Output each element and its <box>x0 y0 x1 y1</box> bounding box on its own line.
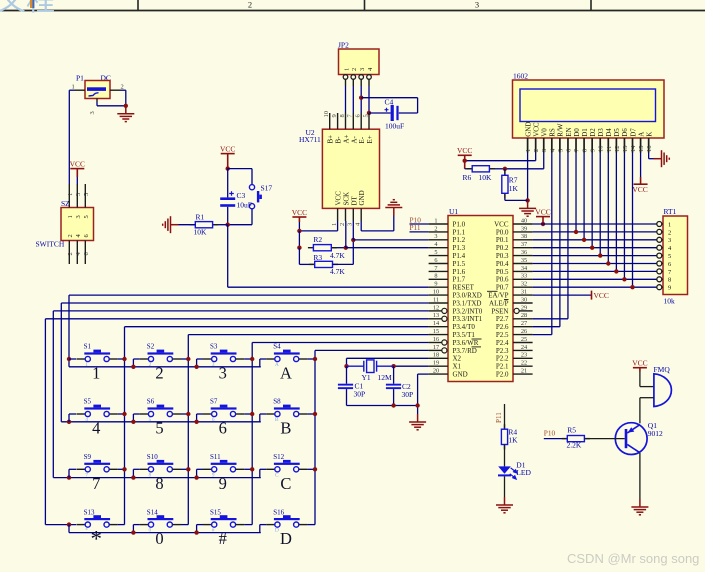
LCD pin 10 (D3) <box>599 138 601 153</box>
LCD pin 15 (A) <box>640 138 642 153</box>
wire U1 X2 to crystal <box>347 357 429 359</box>
junction column 1 row 3 <box>122 467 126 471</box>
switch S15 (key #) <box>211 518 237 520</box>
svg-text:*: * <box>91 527 103 552</box>
U2 bottom pins <box>337 208 339 221</box>
U1 pin 12 (P3.2/INT0) <box>429 310 442 312</box>
svg-text:8: 8 <box>149 472 152 478</box>
svg-text:3: 3 <box>668 237 671 244</box>
SZ pin 5 <box>84 184 86 208</box>
wire S3 left drop <box>196 359 198 367</box>
junction column 3 row 2 <box>250 412 254 416</box>
wire P1.2 to ground junction <box>121 89 126 91</box>
IC U2 HX711 body <box>322 129 379 208</box>
wire P0.1 row to RT1 pin 3 <box>533 239 657 241</box>
wire buzzer bottom terminal to Q1 emitter <box>640 397 654 399</box>
svg-text:1K: 1K <box>508 435 518 444</box>
junction D5 / P0.5 <box>614 269 618 273</box>
RT1 pin 2 <box>657 229 662 234</box>
svg-text:P1.4: P1.4 <box>453 252 466 260</box>
svg-text:11: 11 <box>606 146 613 152</box>
svg-text:P3.2/INT0: P3.2/INT0 <box>453 307 483 315</box>
junction crystal right <box>391 364 395 368</box>
svg-text:7: 7 <box>85 472 88 478</box>
resistor R4 (1K) <box>504 424 506 429</box>
wire VCC rail down to R2 <box>298 231 300 248</box>
LCD pin 7 (D0) <box>575 138 577 153</box>
switch S2 (key 2) <box>148 352 174 354</box>
svg-text:37: 37 <box>521 241 527 248</box>
svg-text:P11: P11 <box>495 412 503 423</box>
U1 pin 26 (P2.5) <box>513 334 533 336</box>
RT1 pin 7 <box>657 269 662 274</box>
U1 pin 33 (P0.6) <box>513 278 533 280</box>
svg-text:8: 8 <box>668 277 671 284</box>
U1 pin 14 (P3.4/T0) <box>429 326 448 328</box>
svg-text:S17: S17 <box>261 184 273 193</box>
connector P1 (DC jack) <box>85 81 110 99</box>
svg-text:P3.4/T0: P3.4/T0 <box>453 323 476 331</box>
connector JP2 <box>339 49 380 75</box>
resistor R6 (10K) <box>465 168 473 170</box>
wire S10 left drop <box>132 469 134 477</box>
svg-text:E+: E+ <box>366 135 374 143</box>
svg-text:0: 0 <box>149 528 152 534</box>
keypad row 4 row line <box>45 524 76 526</box>
U1 pin 4 (P1.3) <box>429 247 448 249</box>
wire row 3 first switch left connector <box>69 468 76 470</box>
wire JP2.4 to U2 E+ <box>368 86 370 113</box>
svg-text:9: 9 <box>331 114 338 117</box>
LCD pin 16 (K) <box>648 138 650 153</box>
svg-text:S4: S4 <box>273 343 281 351</box>
capacitor C2 (30P) <box>393 366 395 384</box>
svg-text:2: 2 <box>434 225 437 232</box>
P1 pin 3 <box>96 99 98 103</box>
U1 pin 17 (P3.7/RD) <box>429 349 442 351</box>
svg-text:3: 3 <box>212 362 215 368</box>
svg-text:5: 5 <box>155 419 163 438</box>
svg-text:S13: S13 <box>84 508 95 516</box>
junction column 2 row 1 <box>186 357 190 361</box>
svg-text:GND: GND <box>358 190 366 205</box>
svg-text:P3.5/T1: P3.5/T1 <box>453 331 476 339</box>
svg-text:3: 3 <box>359 68 366 71</box>
wire JP2.2 to U2 A- <box>352 86 354 113</box>
svg-text:LED: LED <box>516 468 531 477</box>
svg-text:P1.1: P1.1 <box>453 228 466 236</box>
svg-text:2: 2 <box>149 362 152 368</box>
svg-text:P1.2: P1.2 <box>453 236 466 244</box>
U1 pin 21 (P2.0) <box>513 373 533 375</box>
ground below P1 <box>117 106 134 122</box>
svg-text:21: 21 <box>521 368 527 375</box>
svg-text:1: 1 <box>92 364 100 383</box>
power port VCC at U1 pin40 <box>536 217 550 224</box>
svg-text:C: C <box>275 472 279 478</box>
svg-text:A: A <box>280 364 292 383</box>
wire P0.3 row to RT1 pin 5 <box>533 255 657 257</box>
svg-text:4.7K: 4.7K <box>330 251 345 260</box>
switch S6 (key 5) <box>148 407 174 409</box>
wire S3 right connector to column <box>244 358 252 360</box>
svg-text:R3: R3 <box>313 253 322 262</box>
wire U1 P2.5 pin26 up to LCD RS <box>533 334 552 336</box>
svg-text:P3.0/RXD: P3.0/RXD <box>453 292 482 300</box>
svg-text:VCC: VCC <box>494 220 509 228</box>
wire P0.0 row to RT1 pin 2 <box>533 231 657 233</box>
svg-text:X1: X1 <box>453 363 462 371</box>
switch S1 (key 1) <box>84 352 110 354</box>
svg-text:C: C <box>280 474 291 493</box>
svg-text:5: 5 <box>83 215 90 218</box>
svg-text:2: 2 <box>533 149 540 152</box>
svg-text:GND: GND <box>524 122 532 137</box>
svg-text:30P: 30P <box>402 390 414 399</box>
svg-text:39: 39 <box>521 225 527 232</box>
U1 pin 22 (P2.1) <box>513 365 533 367</box>
svg-text:P3.7/RD: P3.7/RD <box>453 347 477 355</box>
P1 pin 2 <box>110 89 121 91</box>
svg-text:9012: 9012 <box>648 429 663 438</box>
wire LCD K pin16 to ground right <box>648 153 650 159</box>
svg-text:4: 4 <box>92 419 100 438</box>
junction VCC / C3 / S17 <box>226 166 230 170</box>
svg-text:P0.0: P0.0 <box>496 228 509 236</box>
wire net P11 down to R4 <box>504 404 506 429</box>
svg-text:2: 2 <box>668 229 671 236</box>
svg-text:5: 5 <box>362 114 369 117</box>
LCD pin 11 (D4) <box>607 138 609 153</box>
svg-text:D7: D7 <box>629 128 637 137</box>
wire LCD V0 pin3 to R6/R7 node <box>543 153 545 169</box>
svg-text:P0.6: P0.6 <box>496 276 509 284</box>
svg-text:10: 10 <box>598 146 605 153</box>
LCD 1602 module body <box>513 80 665 138</box>
capacitor C3 (electrolytic 10uF) <box>227 169 229 198</box>
svg-text:10K: 10K <box>479 173 493 182</box>
wire U1 EA/VP pin31 to VCC port <box>533 294 592 296</box>
LCD pin 5 (R/W) <box>559 138 561 153</box>
wire keypad column 1 bus (P3.4) <box>125 326 429 328</box>
wire S4 right connector to column <box>307 358 315 360</box>
wire row 2 first switch left connector <box>69 413 76 415</box>
ground left of R1 (rotated) <box>163 216 179 233</box>
svg-text:28: 28 <box>521 312 527 319</box>
U1 pin 37 (P0.2) <box>513 247 533 249</box>
svg-text:1: 1 <box>525 149 532 152</box>
switch S13 (key *) <box>84 518 110 520</box>
U1 pin 35 (P0.4) <box>513 263 533 265</box>
svg-text:16: 16 <box>433 336 439 343</box>
svg-text:VCC: VCC <box>70 159 85 168</box>
U1 pin 31 (EA/VP) <box>513 294 533 296</box>
wire P1.1 down the left side to SZ <box>69 89 75 91</box>
svg-text:8: 8 <box>434 273 437 280</box>
svg-text:15: 15 <box>433 328 439 335</box>
svg-text:1: 1 <box>434 217 437 224</box>
svg-text:26: 26 <box>521 328 527 335</box>
wire S16 right connector to column <box>307 524 315 526</box>
svg-text:36: 36 <box>521 249 527 256</box>
svg-text:20: 20 <box>433 368 439 375</box>
svg-text:EA/VP: EA/VP <box>488 292 508 300</box>
svg-text:A: A <box>637 132 645 137</box>
junction crystal left <box>344 364 348 368</box>
svg-text:PSEN: PSEN <box>491 307 508 315</box>
wire row 1 first switch left connector <box>69 358 76 360</box>
junction LCD GND / R7 / ground <box>525 198 529 202</box>
svg-text:12M: 12M <box>378 373 393 382</box>
LCD 1602 screen area <box>520 89 656 122</box>
U1 pin 1 (P1.0) <box>429 223 448 225</box>
transistor Q1 (PNP 9012) <box>615 423 647 455</box>
svg-text:S2: S2 <box>147 343 155 351</box>
svg-text:D1: D1 <box>581 128 589 137</box>
svg-text:V0: V0 <box>541 128 549 137</box>
wire S14 left drop <box>132 525 134 533</box>
wire P1.3 to ground junction <box>96 102 98 106</box>
svg-text:12: 12 <box>433 304 439 311</box>
wire reset node to U1 RESET pin 9 <box>227 225 229 288</box>
svg-text:9: 9 <box>590 149 597 152</box>
svg-text:P2.5: P2.5 <box>496 331 509 339</box>
wire JP2.1 to U2 A+ <box>345 86 347 113</box>
resistor R3 (4.7K pull-up) <box>309 263 315 265</box>
ground below crystal <box>409 414 426 430</box>
svg-text:RS: RS <box>549 128 557 137</box>
junction keypad row 1 left <box>67 357 71 361</box>
resistor network RT1 body <box>663 216 688 295</box>
wire stub net P10 <box>410 223 429 225</box>
wire VCC node to S17 top <box>228 168 252 170</box>
svg-text:R/W: R/W <box>557 123 565 137</box>
wire Q1 collector to ground <box>639 453 641 499</box>
wire R3 to DT line <box>333 263 354 265</box>
U1 pin 34 (P0.5) <box>513 270 533 272</box>
IC U1 MCU body <box>448 216 513 382</box>
svg-text:RT1: RT1 <box>664 207 677 216</box>
RT1 pin 9 <box>657 285 662 290</box>
sheet border ruler line <box>0 10 705 12</box>
wire P0.6 row to RT1 pin 8 <box>533 278 657 280</box>
wire LCD D7 drop <box>632 153 634 288</box>
wire S12 left drop <box>259 469 261 477</box>
junction E+ / C4 <box>367 111 371 115</box>
svg-text:R5: R5 <box>567 425 576 434</box>
U1 pin 27 (P2.6) <box>513 326 533 328</box>
wire LCD VCC pin2 to VCC rail <box>535 153 537 161</box>
U2 top pins <box>329 113 331 129</box>
svg-text:#: # <box>219 529 227 548</box>
svg-text:P1.6: P1.6 <box>453 268 466 276</box>
svg-text:1: 1 <box>668 221 671 228</box>
svg-text:VCC: VCC <box>292 208 307 217</box>
wire keypad row 3 bus (P3.2) <box>53 310 428 312</box>
svg-text:U1: U1 <box>449 207 458 216</box>
wire P0.7 row to RT1 pin 9 <box>533 286 657 288</box>
switch S10 (key 8) <box>148 463 174 465</box>
U1 pin 7 (P1.6) <box>429 270 448 272</box>
svg-text:25: 25 <box>521 336 527 343</box>
U1 pin 13 (P3.3/INT1) <box>429 318 442 320</box>
svg-text:17: 17 <box>433 344 439 351</box>
wire S6 right connector to column <box>181 413 188 415</box>
U1 pin 39 (P0.0) <box>513 231 533 233</box>
LCD pin 6 (EN) <box>567 138 569 153</box>
svg-text:S11: S11 <box>210 453 221 461</box>
svg-text:P1: P1 <box>76 74 84 83</box>
svg-text:P2.0: P2.0 <box>496 371 509 379</box>
svg-text:C4: C4 <box>385 97 394 106</box>
junction C2 / ground rail <box>391 403 395 407</box>
switch S9 (key 7) <box>84 463 110 465</box>
svg-text:P2.4: P2.4 <box>496 339 509 347</box>
wire S17 bottom to reset node <box>251 209 253 225</box>
svg-text:S1: S1 <box>84 343 92 351</box>
svg-text:JP2: JP2 <box>338 41 349 50</box>
wire LCD D2 drop <box>591 153 593 248</box>
svg-text:S14: S14 <box>147 508 158 516</box>
svg-text:D0: D0 <box>573 128 581 137</box>
keypad row 3 row line <box>53 477 260 479</box>
svg-text:10: 10 <box>433 289 439 296</box>
junction SCK / R2 <box>344 246 348 250</box>
svg-text:19: 19 <box>433 360 439 367</box>
svg-text:9: 9 <box>212 472 215 478</box>
svg-text:B: B <box>275 417 279 423</box>
svg-text:P11: P11 <box>410 223 421 232</box>
svg-text:9: 9 <box>219 474 227 493</box>
svg-text:P0.3: P0.3 <box>496 252 509 260</box>
wire U1 P2.7 pin28 up to LCD EN <box>533 318 568 320</box>
wire S9 right connector to column <box>118 468 125 470</box>
wire JP2.3 to U2 E- <box>360 86 362 113</box>
svg-text:27: 27 <box>521 320 527 327</box>
U1 pin 23 (P2.2) <box>513 357 533 359</box>
junction D1 / P0.1 <box>582 238 586 242</box>
svg-text:P2.2: P2.2 <box>496 355 509 363</box>
ground above U2 GND route (inverted) <box>385 200 402 216</box>
wire U2 GND to ground <box>360 221 362 231</box>
svg-text:VCC: VCC <box>335 191 343 206</box>
wire VCC to SZ pin 3 <box>76 177 78 185</box>
wire U2 SCK to U1 P1.3 <box>345 221 347 248</box>
svg-text:VCC: VCC <box>594 291 609 300</box>
RT1 pin 4 <box>657 245 662 250</box>
svg-text:*: * <box>85 528 88 534</box>
svg-text:P3.3/INT1: P3.3/INT1 <box>453 315 483 323</box>
ruler tick x=591 <box>590 0 592 11</box>
U1 pin 32 (P0.7) <box>513 286 533 288</box>
ruler tick x=138 <box>137 0 139 11</box>
svg-text:S8: S8 <box>273 398 281 406</box>
svg-text:S9: S9 <box>84 453 92 461</box>
junction D6 / P0.6 <box>622 277 626 281</box>
svg-text:SWITCH: SWITCH <box>36 240 65 249</box>
svg-text:A: A <box>275 362 279 368</box>
svg-text:33: 33 <box>521 273 527 280</box>
svg-text:6: 6 <box>219 419 227 438</box>
svg-text:4: 4 <box>85 417 88 423</box>
wire LCD D3 drop <box>599 153 601 256</box>
svg-text:S3: S3 <box>210 343 218 351</box>
svg-text:K: K <box>645 132 653 137</box>
svg-text:D: D <box>275 528 279 534</box>
svg-text:S15: S15 <box>210 508 221 516</box>
svg-text:32: 32 <box>521 281 527 288</box>
svg-text:1602: 1602 <box>513 72 528 81</box>
U1 pin 30 (ALE/P) <box>513 302 533 304</box>
U1 pin 24 (P2.3) <box>513 349 533 351</box>
svg-text:A+: A+ <box>343 134 351 143</box>
ground below LED <box>496 497 513 513</box>
svg-text:2: 2 <box>121 83 124 90</box>
svg-text:D3: D3 <box>597 128 605 137</box>
U1 pin 3 (P1.2) <box>429 239 448 241</box>
switch S16 (key D) <box>274 518 300 520</box>
ruler tick x=364 <box>364 0 366 11</box>
junction reset node <box>226 223 230 227</box>
power port VCC for U2/R2/R3 <box>292 217 306 222</box>
U1 pin 38 (P0.1) <box>513 239 533 241</box>
svg-text:X2: X2 <box>453 355 462 363</box>
U1 pin 29 (PSEN) <box>519 310 532 312</box>
svg-text:30P: 30P <box>354 390 366 399</box>
wire P0.2 row to RT1 pin 4 <box>533 247 657 249</box>
wire S15 right connector to column <box>244 524 252 526</box>
svg-text:1: 1 <box>72 83 75 90</box>
switch SZ (slide switch) <box>61 208 94 241</box>
LCD pin 14 (D7) <box>632 138 634 153</box>
wire S2 right connector to column <box>181 358 188 360</box>
svg-text:5: 5 <box>668 253 671 260</box>
svg-text:P0.5: P0.5 <box>496 268 509 276</box>
LCD pin 4 (RS) <box>551 138 553 153</box>
svg-text:D4: D4 <box>605 128 613 137</box>
wire LED cathode to ground <box>504 476 506 497</box>
svg-text:100uF: 100uF <box>385 122 404 131</box>
wire S16 left drop <box>259 525 261 533</box>
U1 pin name overline ALE/P trailing P <box>504 299 509 301</box>
svg-text:P1.5: P1.5 <box>453 260 466 268</box>
svg-text:1: 1 <box>343 68 350 71</box>
wire VCC/RT1 row from U1 pin40 <box>533 223 657 225</box>
ground right of LCD pin16 (rotated) <box>654 150 670 167</box>
P1 pin 1 <box>75 89 85 91</box>
svg-text:S5: S5 <box>84 398 92 406</box>
wire crystal caps common to ground <box>347 405 418 407</box>
svg-text:24: 24 <box>521 344 528 351</box>
switch S12 (key C) <box>274 463 300 465</box>
U1 pin 5 (P1.4) <box>429 255 448 257</box>
svg-text:P2.7: P2.7 <box>496 315 509 323</box>
svg-text:38: 38 <box>521 233 527 240</box>
svg-text:18: 18 <box>433 352 439 359</box>
junction column 2 row 2 <box>186 412 190 416</box>
power port VCC near R6 <box>458 155 472 169</box>
svg-text:10: 10 <box>323 111 330 118</box>
svg-text:VCC: VCC <box>457 146 472 155</box>
RT1 pin 5 <box>657 253 662 258</box>
wire VCC to buzzer top terminal <box>639 372 641 387</box>
junction P1 ground node <box>124 104 128 108</box>
svg-text:C3: C3 <box>237 191 246 200</box>
junction column 3 row 3 <box>250 467 254 471</box>
wire S11 right connector to column <box>244 468 252 470</box>
svg-text:3: 3 <box>89 111 96 114</box>
svg-text:1: 1 <box>85 362 88 368</box>
